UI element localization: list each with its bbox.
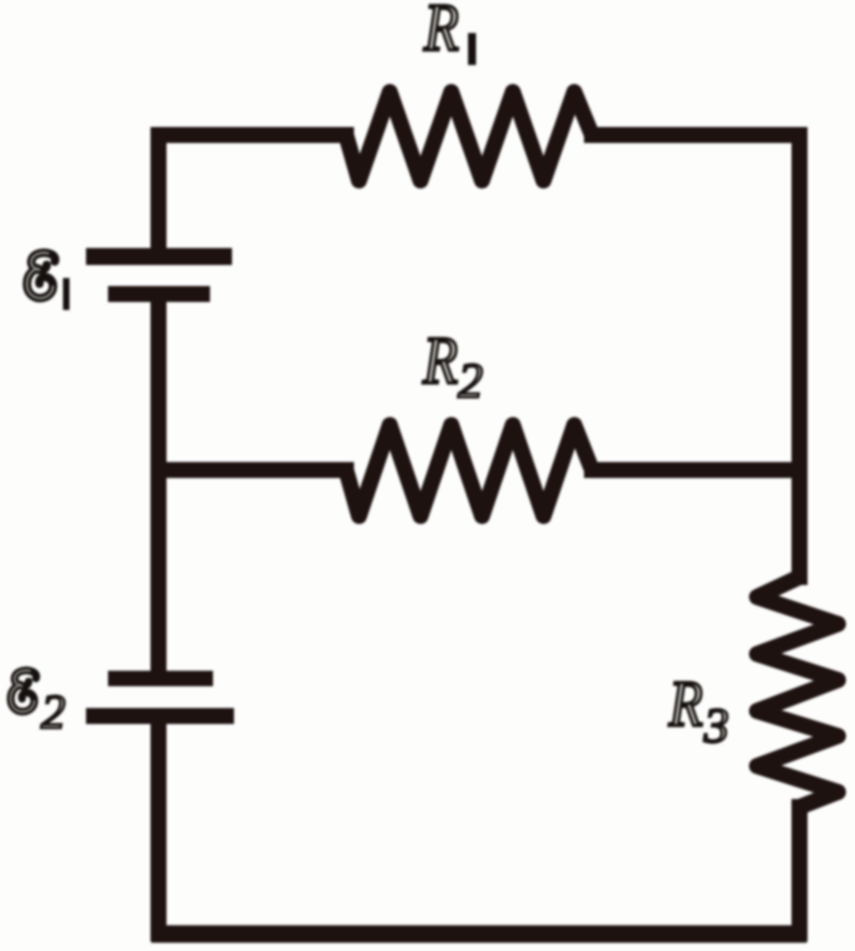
wire [151, 470, 167, 671]
label R1 [423, 0, 476, 65]
svg-text:2: 2 [41, 684, 66, 739]
resistor R3 [757, 577, 838, 807]
svg-text:R: R [668, 668, 703, 741]
wire [159, 135, 347, 250]
svg-text:R: R [422, 322, 458, 398]
battery E1 [86, 257, 232, 295]
label E1 [27, 253, 70, 310]
wire [792, 470, 808, 577]
label E2 [11, 670, 66, 739]
label R3 [668, 668, 729, 753]
wire [151, 302, 167, 470]
wire [592, 462, 800, 478]
svg-text:R: R [423, 0, 459, 65]
label R2 [422, 322, 483, 408]
svg-text:2: 2 [458, 352, 483, 408]
resistor R2 [346, 425, 592, 516]
wire [159, 462, 347, 478]
battery E2 [86, 679, 234, 717]
wire [792, 807, 808, 934]
wire [592, 135, 800, 470]
wire [160, 925, 798, 943]
svg-text:3: 3 [703, 697, 729, 753]
resistor R1 [346, 92, 592, 181]
wire [151, 724, 167, 934]
